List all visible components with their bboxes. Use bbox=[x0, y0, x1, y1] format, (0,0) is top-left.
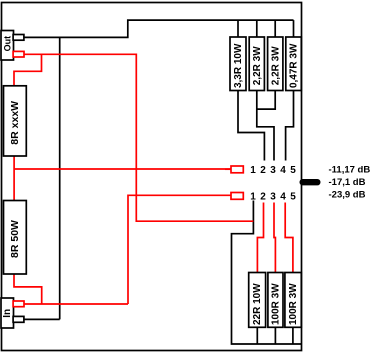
svg-text:8R 50W: 8R 50W bbox=[9, 220, 21, 258]
resistor R4 0,47R 3W bbox=[286, 37, 302, 91]
wire: tap junction to selector row 1 feed bbox=[14, 168, 231, 170]
wire: Out black terminal to top rail bbox=[24, 20, 294, 37]
svg-text:2,2R 3W: 2,2R 3W bbox=[270, 46, 281, 85]
node: row 1 position labels 1 2 3 4 5 bbox=[250, 165, 296, 176]
resistor R7 100R 3W bbox=[285, 273, 301, 328]
pin: Out terminal 1 (black stub) bbox=[13, 35, 24, 41]
svg-text:3: 3 bbox=[270, 165, 276, 176]
wire: R5 bottom lead bbox=[256, 327, 258, 344]
value label -11,17 dB bbox=[329, 165, 371, 176]
svg-text:In: In bbox=[2, 309, 13, 318]
node: row 2 position labels 1 2 3 4 5 bbox=[250, 192, 296, 203]
svg-text:2,2R 3W: 2,2R 3W bbox=[252, 46, 263, 85]
wire: branch from Out red to R8 top bbox=[14, 54, 42, 86]
svg-text:5: 5 bbox=[290, 165, 296, 176]
wire: row 1 stub lead bbox=[225, 168, 231, 170]
pin: In terminal red stub bbox=[13, 301, 24, 307]
value label -23,9 dB bbox=[329, 189, 366, 200]
wire: R4 bottom lead to selector row 1 position 4 bbox=[286, 91, 294, 161]
pin: selector row 2 stub bbox=[231, 193, 243, 200]
wire: In black terminal to common rail bbox=[24, 318, 60, 320]
svg-text:-11,17 dB: -11,17 dB bbox=[329, 165, 371, 176]
resistor R3 2,2R 3W bbox=[268, 37, 283, 91]
resistor R2 2,2R 3W bbox=[249, 37, 264, 91]
wire: R7 bottom lead bbox=[292, 327, 294, 344]
wire: top rail tap to R2 bbox=[256, 20, 258, 37]
svg-text:1: 1 bbox=[250, 192, 256, 203]
wire: R9 bottom jog to In red net bbox=[14, 274, 42, 304]
pin: selector row 1 stub bbox=[231, 166, 243, 173]
wire: R2 bottom lead joined with R3 to selector row 1 position 3 bbox=[257, 91, 274, 161]
value label -17,1 dB bbox=[329, 177, 366, 188]
wire: selector row 2 position 3 to R6 bbox=[274, 203, 275, 273]
node: selector knob marker bbox=[300, 179, 321, 185]
svg-text:Out: Out bbox=[3, 36, 13, 52]
wire: In red terminal horizontal bbox=[24, 303, 128, 305]
wire: In red net up to selector row 2 feed bbox=[128, 195, 231, 304]
wire: R8 bottom to R9 top bbox=[13, 156, 15, 201]
wire: selector row 2 position 2 to R5 bbox=[257, 203, 263, 273]
svg-text:2: 2 bbox=[260, 165, 266, 176]
svg-text:0,47R 3W: 0,47R 3W bbox=[289, 43, 300, 88]
wire: R1 bottom lead to selector row 1 position 2 bbox=[238, 91, 264, 161]
pin: Out terminal 2 (red stub) bbox=[13, 51, 24, 57]
wire: R6 bottom lead bbox=[274, 327, 276, 344]
wire: top rail tap to R3 bbox=[274, 20, 276, 37]
connector In bbox=[1, 298, 14, 328]
resistor R9 8R 50W bbox=[4, 201, 27, 275]
enclosure border bbox=[2, 3, 302, 351]
wire: selector row 2 position 4 to R7 bbox=[285, 203, 293, 273]
svg-text:8R xxxW: 8R xxxW bbox=[9, 101, 21, 145]
wire: top rail tap to R4 bbox=[293, 20, 295, 37]
svg-text:100R 3W: 100R 3W bbox=[271, 283, 282, 325]
svg-text:-17,1 dB: -17,1 dB bbox=[329, 177, 366, 188]
resistor R8 8R xxxW bbox=[4, 86, 27, 156]
wire: top rail tap to R1 bbox=[237, 20, 239, 37]
svg-text:4: 4 bbox=[280, 165, 286, 176]
svg-text:3: 3 bbox=[270, 192, 276, 203]
wire: Out red terminal to row-2 common net bbox=[24, 54, 253, 221]
resistor R5 22R 10W bbox=[249, 273, 266, 328]
svg-text:-23,9 dB: -23,9 dB bbox=[329, 189, 366, 200]
svg-text:4: 4 bbox=[280, 192, 286, 203]
svg-text:5: 5 bbox=[290, 192, 296, 203]
svg-text:1: 1 bbox=[250, 165, 256, 176]
wire: R3 bottom lead bbox=[257, 91, 275, 110]
resistor R1 3,3R 10W bbox=[230, 37, 246, 91]
wire: common rail Out to In (vertical) bbox=[59, 37, 61, 319]
svg-text:3,3R 10W: 3,3R 10W bbox=[233, 43, 244, 88]
svg-text:22R 10W: 22R 10W bbox=[252, 283, 263, 325]
svg-text:2: 2 bbox=[260, 192, 266, 203]
connector Out bbox=[1, 31, 14, 61]
pin: In terminal black stub bbox=[13, 316, 24, 322]
wire: selector row 2 position 1 to bottom bank common bbox=[232, 201, 302, 345]
svg-text:100R 3W: 100R 3W bbox=[288, 283, 299, 325]
resistor R6 100R 3W bbox=[268, 273, 283, 328]
